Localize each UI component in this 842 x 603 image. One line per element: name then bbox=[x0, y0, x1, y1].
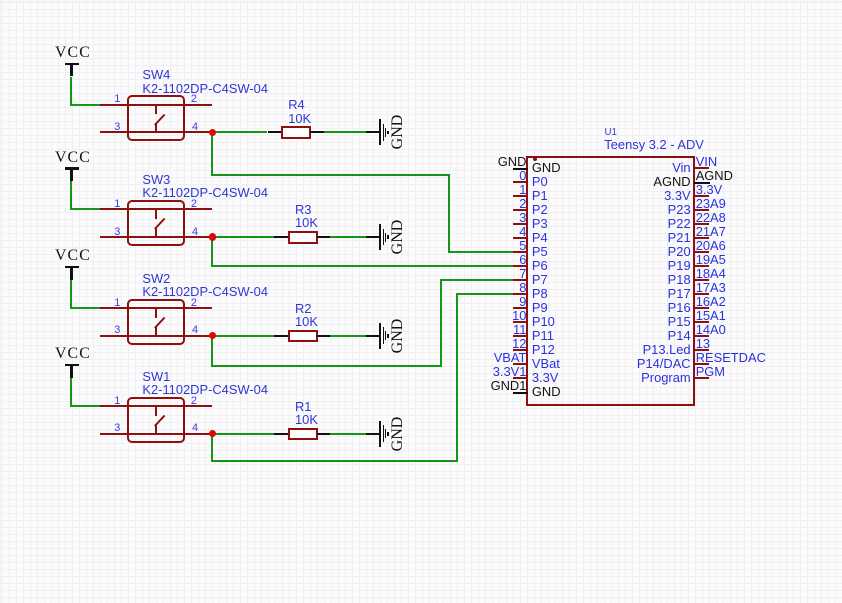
U1 pin 19A5 (P19) right bbox=[694, 265, 709, 267]
pin 4 (SW1) bbox=[192, 423, 198, 434]
U1 pin 1 (P1) left bbox=[513, 195, 527, 197]
ground GND (R2) bbox=[366, 335, 379, 337]
pin 4 (SW2) bbox=[192, 325, 198, 336]
U1 pin 3 (P3) left bbox=[513, 223, 527, 225]
wire R3 to GND bbox=[330, 236, 366, 238]
U1 pin 0 (P0) left bbox=[513, 181, 527, 183]
junction node SW1 pin 4 bbox=[209, 430, 216, 437]
switch SW3 pin 1-2 lead bbox=[100, 208, 211, 210]
pin 2 (SW4) bbox=[191, 94, 197, 105]
label SW4 value bbox=[142, 83, 268, 96]
wire R1 to GND bbox=[330, 433, 366, 435]
label SW1 value bbox=[142, 384, 268, 397]
U1 pin 20A6 (P20) right bbox=[694, 251, 709, 253]
switch SW3 contact bbox=[155, 209, 157, 219]
wire net SW4 to U1 P5 bbox=[211, 132, 213, 175]
U1 pin 12 (P12) left bbox=[513, 349, 527, 351]
U1 pin 16A2 (P16) right bbox=[694, 307, 709, 309]
pin 2 (SW1) bbox=[191, 396, 197, 407]
resistor R3 bbox=[274, 236, 289, 238]
switch SW1 pin 3-4 lead bbox=[100, 433, 212, 435]
U1 pin 11 (P11) left bbox=[513, 335, 527, 337]
U1 pin VIN (Vin) right bbox=[694, 167, 709, 169]
pin 4 (SW3) bbox=[192, 227, 198, 238]
resistor R4 bbox=[268, 131, 283, 133]
pin 2 (SW2) bbox=[191, 298, 197, 309]
power VCC (SW4) bbox=[55, 45, 91, 61]
junction node SW3 pin 4 bbox=[209, 233, 216, 240]
wire VCC to SW2 pin 1 bbox=[70, 280, 72, 309]
switch SW2 pin 3-4 lead bbox=[100, 335, 212, 337]
U1 pin 3.3V1 (3.3V) left bbox=[513, 377, 527, 379]
U1 pin 6 (P6) left bbox=[513, 265, 527, 267]
pin 1 (SW4) bbox=[114, 94, 120, 105]
switch SW4 contact bbox=[155, 105, 157, 115]
U1 pin 2 (P2) left bbox=[513, 209, 527, 211]
resistor R2 bbox=[274, 335, 289, 337]
pin 3 (SW2) bbox=[114, 325, 120, 336]
power VCC (SW2) bbox=[55, 248, 91, 264]
label R4 value 10K bbox=[288, 113, 311, 126]
label R1 bbox=[295, 401, 311, 414]
U1 pin 22A8 (P22) right bbox=[694, 223, 709, 225]
IC U1 body bbox=[526, 156, 695, 405]
U1 pin 3.3V (3.3V) right bbox=[694, 195, 709, 197]
U1 pin 18A4 (P18) right bbox=[694, 279, 709, 281]
wire net SW3 to U1 P6 bbox=[211, 237, 213, 266]
wire R1 left bbox=[212, 433, 274, 435]
U1 pin RESETDAC (P14/DAC) right bbox=[694, 363, 709, 365]
U1 pin 9 (P9) left bbox=[513, 307, 527, 309]
label SW1 bbox=[142, 371, 170, 384]
label SW2 bbox=[142, 273, 170, 286]
junction node SW2 pin 4 bbox=[209, 332, 216, 339]
label R2 bbox=[295, 303, 311, 316]
wire VCC to SW4 pin 1 bbox=[70, 77, 72, 106]
U1 pin 10 (P10) left bbox=[513, 321, 527, 323]
label R4 bbox=[288, 99, 304, 112]
ground GND (R1) bbox=[366, 433, 379, 435]
U1 pin AGND (AGND) right bbox=[694, 182, 709, 184]
wire R2 left bbox=[212, 335, 274, 337]
pin 1 (SW3) bbox=[114, 199, 120, 210]
U1 pin 15A1 (P15) right bbox=[694, 321, 709, 323]
pin 2 (SW3) bbox=[191, 199, 197, 210]
switch SW2 pin 1-2 lead bbox=[100, 307, 211, 309]
power VCC (SW1) bbox=[55, 346, 91, 362]
power VCC (SW3) bbox=[55, 150, 91, 166]
switch SW1 pin 1-2 lead bbox=[100, 405, 211, 407]
wire VCC to SW3 pin 1 bbox=[70, 181, 72, 210]
U1 pin PGM (Program) right bbox=[694, 377, 709, 379]
pin 4 (SW4) bbox=[192, 122, 198, 133]
U1 pin 13 (P13.Led) right bbox=[694, 349, 709, 351]
wire R4 to GND bbox=[324, 131, 367, 133]
pin 3 (SW4) bbox=[114, 122, 120, 133]
U1 pin VBAT (VBat) left bbox=[513, 363, 527, 365]
label R1 value 10K bbox=[295, 414, 318, 427]
U1 pin GND (GND) left bbox=[513, 168, 528, 170]
U1 pin GND1 (GND) left bbox=[513, 392, 528, 394]
ground GND (R4) bbox=[366, 131, 379, 133]
U1 pin 4 (P4) left bbox=[513, 237, 527, 239]
U1 pin 21A7 (P21) right bbox=[694, 237, 709, 239]
U1 origin dot bbox=[533, 157, 537, 161]
switch SW2 contact bbox=[155, 308, 157, 318]
label U1 bbox=[605, 128, 617, 138]
U1 pin 17A3 (P17) right bbox=[694, 293, 709, 295]
wire R4 left bbox=[212, 131, 267, 133]
label R3 value 10K bbox=[295, 217, 318, 230]
label R3 bbox=[295, 204, 311, 217]
U1 pin 8 (P8) left bbox=[513, 293, 527, 295]
switch SW4 pin 1-2 lead bbox=[100, 104, 211, 106]
switch SW2 body bbox=[127, 299, 185, 345]
label SW2 value bbox=[142, 286, 268, 299]
wire net SW2 to U1 P7 bbox=[211, 336, 213, 367]
pin 3 (SW3) bbox=[114, 227, 120, 238]
wire VCC to SW1 pin 1 bbox=[70, 378, 72, 407]
label SW4 bbox=[142, 69, 170, 82]
U1 pin 14A0 (P14) right bbox=[694, 335, 709, 337]
label SW3 value bbox=[142, 187, 268, 200]
wire R3 left bbox=[212, 236, 274, 238]
label R2 value 10K bbox=[295, 316, 318, 329]
U1 pin 5 (P5) left bbox=[513, 251, 527, 253]
switch SW1 body bbox=[127, 397, 185, 443]
switch SW3 pin 3-4 lead bbox=[100, 236, 212, 238]
label SW3 bbox=[142, 174, 170, 187]
switch SW4 body bbox=[127, 95, 185, 141]
resistor R1 bbox=[274, 433, 289, 435]
pin 1 (SW2) bbox=[114, 298, 120, 309]
U1 pin 23A9 (P23) right bbox=[694, 209, 709, 211]
switch SW1 contact bbox=[155, 406, 157, 416]
wire R2 to GND bbox=[330, 335, 366, 337]
switch SW4 pin 3-4 lead bbox=[100, 131, 212, 133]
label U1 value Teensy 3.2 - ADV bbox=[604, 139, 704, 152]
pin 3 (SW1) bbox=[114, 423, 120, 434]
wire net SW1 to U1 P8 bbox=[211, 434, 213, 462]
pin 1 (SW1) bbox=[114, 396, 120, 407]
U1 pin 7 (P7) left bbox=[513, 279, 527, 281]
ground GND (R3) bbox=[366, 236, 379, 238]
junction node SW4 pin 4 bbox=[209, 129, 216, 136]
switch SW3 body bbox=[127, 200, 185, 246]
